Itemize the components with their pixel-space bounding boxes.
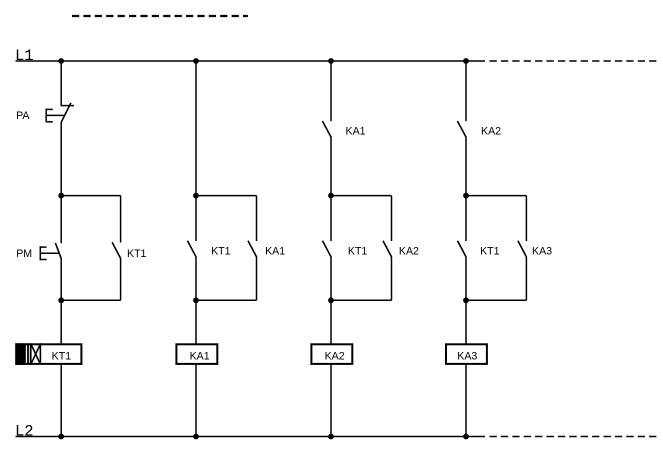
wire branch4 left sub upper (465, 196, 467, 241)
wire branch3 KA1 to box (330, 137, 332, 196)
svg-text:KA2: KA2 (325, 351, 345, 363)
wire L2 bus dashed continuation (490, 436, 658, 438)
svg-text:KT1: KT1 (348, 246, 368, 258)
wire branch2 box bottom horizontal (196, 299, 257, 301)
coil KA2 (311, 344, 352, 364)
wire branch4 box bottom horizontal (466, 299, 526, 301)
svg-text:KT1: KT1 (480, 245, 500, 257)
contact KT1 branch4 (NO) (458, 241, 467, 257)
wire branch1 right sub lower (120, 258, 122, 300)
contact KT1 branch2 (NO) (188, 241, 197, 257)
junction branch2 box bottom (193, 297, 199, 303)
wire branch3 coil to L2 (330, 365, 332, 437)
wire branch1 left sub to PM (60, 196, 62, 244)
label KA1 top (346, 126, 366, 138)
wire branch3 right sub upper (391, 196, 393, 241)
contact KA1 branch3 top (NO) (322, 121, 331, 137)
wire branch2 left sub upper (195, 196, 197, 241)
label KA2 branch3 (399, 246, 419, 258)
label KA2 top (481, 126, 501, 138)
wire branch3 box to coil (330, 300, 332, 344)
coil KA3 (446, 344, 487, 364)
wire L1 bus solid (16, 60, 486, 62)
wire branch1 coil to L2 (60, 365, 62, 437)
contact KA2 branch3 (NO) (383, 241, 392, 257)
wire branch4 coil to L2 (465, 365, 467, 437)
junction branch1 box bottom (58, 297, 64, 303)
wire branch1 PM to box bottom (60, 259, 62, 301)
wire branch4 KA2 to box (465, 137, 467, 196)
wire branch4 right sub upper (525, 196, 527, 241)
svg-text:KA2: KA2 (399, 246, 419, 258)
wire branch1 box to coil (60, 300, 62, 344)
node L1 label (15, 47, 34, 65)
junction branch4 box top (463, 193, 469, 199)
svg-text:KA3: KA3 (457, 351, 477, 363)
coil KA1 (176, 344, 217, 364)
wire branch1 box top horizontal (61, 195, 120, 197)
wire branch3 left sub upper (330, 196, 332, 241)
label KT1 branch1 (127, 248, 147, 260)
label KA3 branch4 (532, 246, 552, 258)
wire branch1 PA to box top (60, 122, 62, 196)
pushbutton PA (NC) (46, 103, 75, 123)
svg-text:PA: PA (16, 110, 30, 122)
wire L2 bus solid (16, 436, 486, 438)
junction L1 branch3 (328, 58, 334, 64)
junction branch2 box top (193, 193, 199, 199)
label KA2 coil (325, 351, 345, 363)
contact KA3 branch4 (NO) (518, 241, 527, 257)
junction L2 branch4 (463, 434, 469, 440)
wire branch2 L1 to box (195, 61, 197, 196)
svg-text:KT1: KT1 (211, 246, 231, 258)
wire branch3 right sub lower (391, 257, 393, 300)
wire branch2 left sub lower (195, 257, 197, 300)
junction L1 branch1 (58, 58, 64, 64)
svg-text:KA1: KA1 (265, 246, 285, 258)
junction L2 branch2 (193, 434, 199, 440)
label PA (16, 110, 30, 122)
wire branch3 L1 to KA1 (330, 61, 332, 121)
wire branch3 left sub lower (330, 257, 332, 300)
junction branch1 box top (58, 193, 64, 199)
svg-text:L1: L1 (15, 47, 34, 65)
wire branch4 L1 to KA2 (465, 61, 467, 121)
label KA3 coil (457, 351, 477, 363)
label KT1 coil (52, 351, 72, 363)
junction branch3 box top (328, 193, 334, 199)
coil KT1 (timer relay coil) (15, 343, 81, 365)
wire branch2 box top horizontal (196, 195, 257, 197)
label KT1 branch2 (211, 246, 231, 258)
svg-text:PM: PM (16, 248, 32, 260)
junction L1 branch2 (193, 58, 199, 64)
wire branch2 right sub lower (256, 257, 258, 300)
wire branch4 left sub lower (465, 257, 467, 300)
svg-text:KA2: KA2 (481, 126, 501, 138)
label KT1 branch3 (348, 246, 368, 258)
contact KT1 branch3 (NO) (323, 241, 332, 257)
wire branch4 box to coil (465, 300, 467, 344)
wire branch3 box top horizontal (331, 195, 392, 197)
svg-text:KT1: KT1 (127, 248, 147, 260)
svg-text:L2: L2 (15, 422, 34, 440)
contact KT1 branch1 (NO) (112, 242, 121, 258)
junction branch3 box bottom (328, 297, 334, 303)
pushbutton PM (NO) (40, 243, 62, 260)
junction branch4 box bottom (463, 297, 469, 303)
label KA1 branch2 (265, 246, 285, 258)
wire branch4 box top horizontal (466, 195, 526, 197)
svg-text:KT1: KT1 (52, 351, 72, 363)
wire top dashed separator (72, 15, 248, 17)
junction L2 branch1 (58, 434, 64, 440)
wire branch3 box bottom horizontal (331, 299, 392, 301)
wire branch1 L1 to PA (60, 61, 62, 106)
wire branch4 right sub lower (525, 257, 527, 300)
svg-text:KA1: KA1 (346, 126, 366, 138)
label PM (16, 248, 32, 260)
wire L1 bus dashed continuation (490, 60, 658, 62)
wire branch2 coil to L2 (195, 365, 197, 437)
node L2 label (15, 422, 34, 440)
contact KA2 branch4 top (NO) (457, 121, 466, 137)
wire branch1 box bottom horizontal (61, 299, 120, 301)
svg-text:KA3: KA3 (532, 246, 552, 258)
junction L2 branch3 (328, 434, 334, 440)
label KA1 coil (190, 351, 210, 363)
wire branch2 right sub upper (256, 196, 258, 241)
contact KA1 branch2 (NO) (248, 241, 257, 257)
svg-text:KA1: KA1 (190, 351, 210, 363)
wire branch2 box to coil (195, 300, 197, 344)
label KT1 branch4 (480, 245, 500, 257)
junction L1 branch4 (463, 58, 469, 64)
wire branch1 right sub upper (120, 196, 122, 243)
